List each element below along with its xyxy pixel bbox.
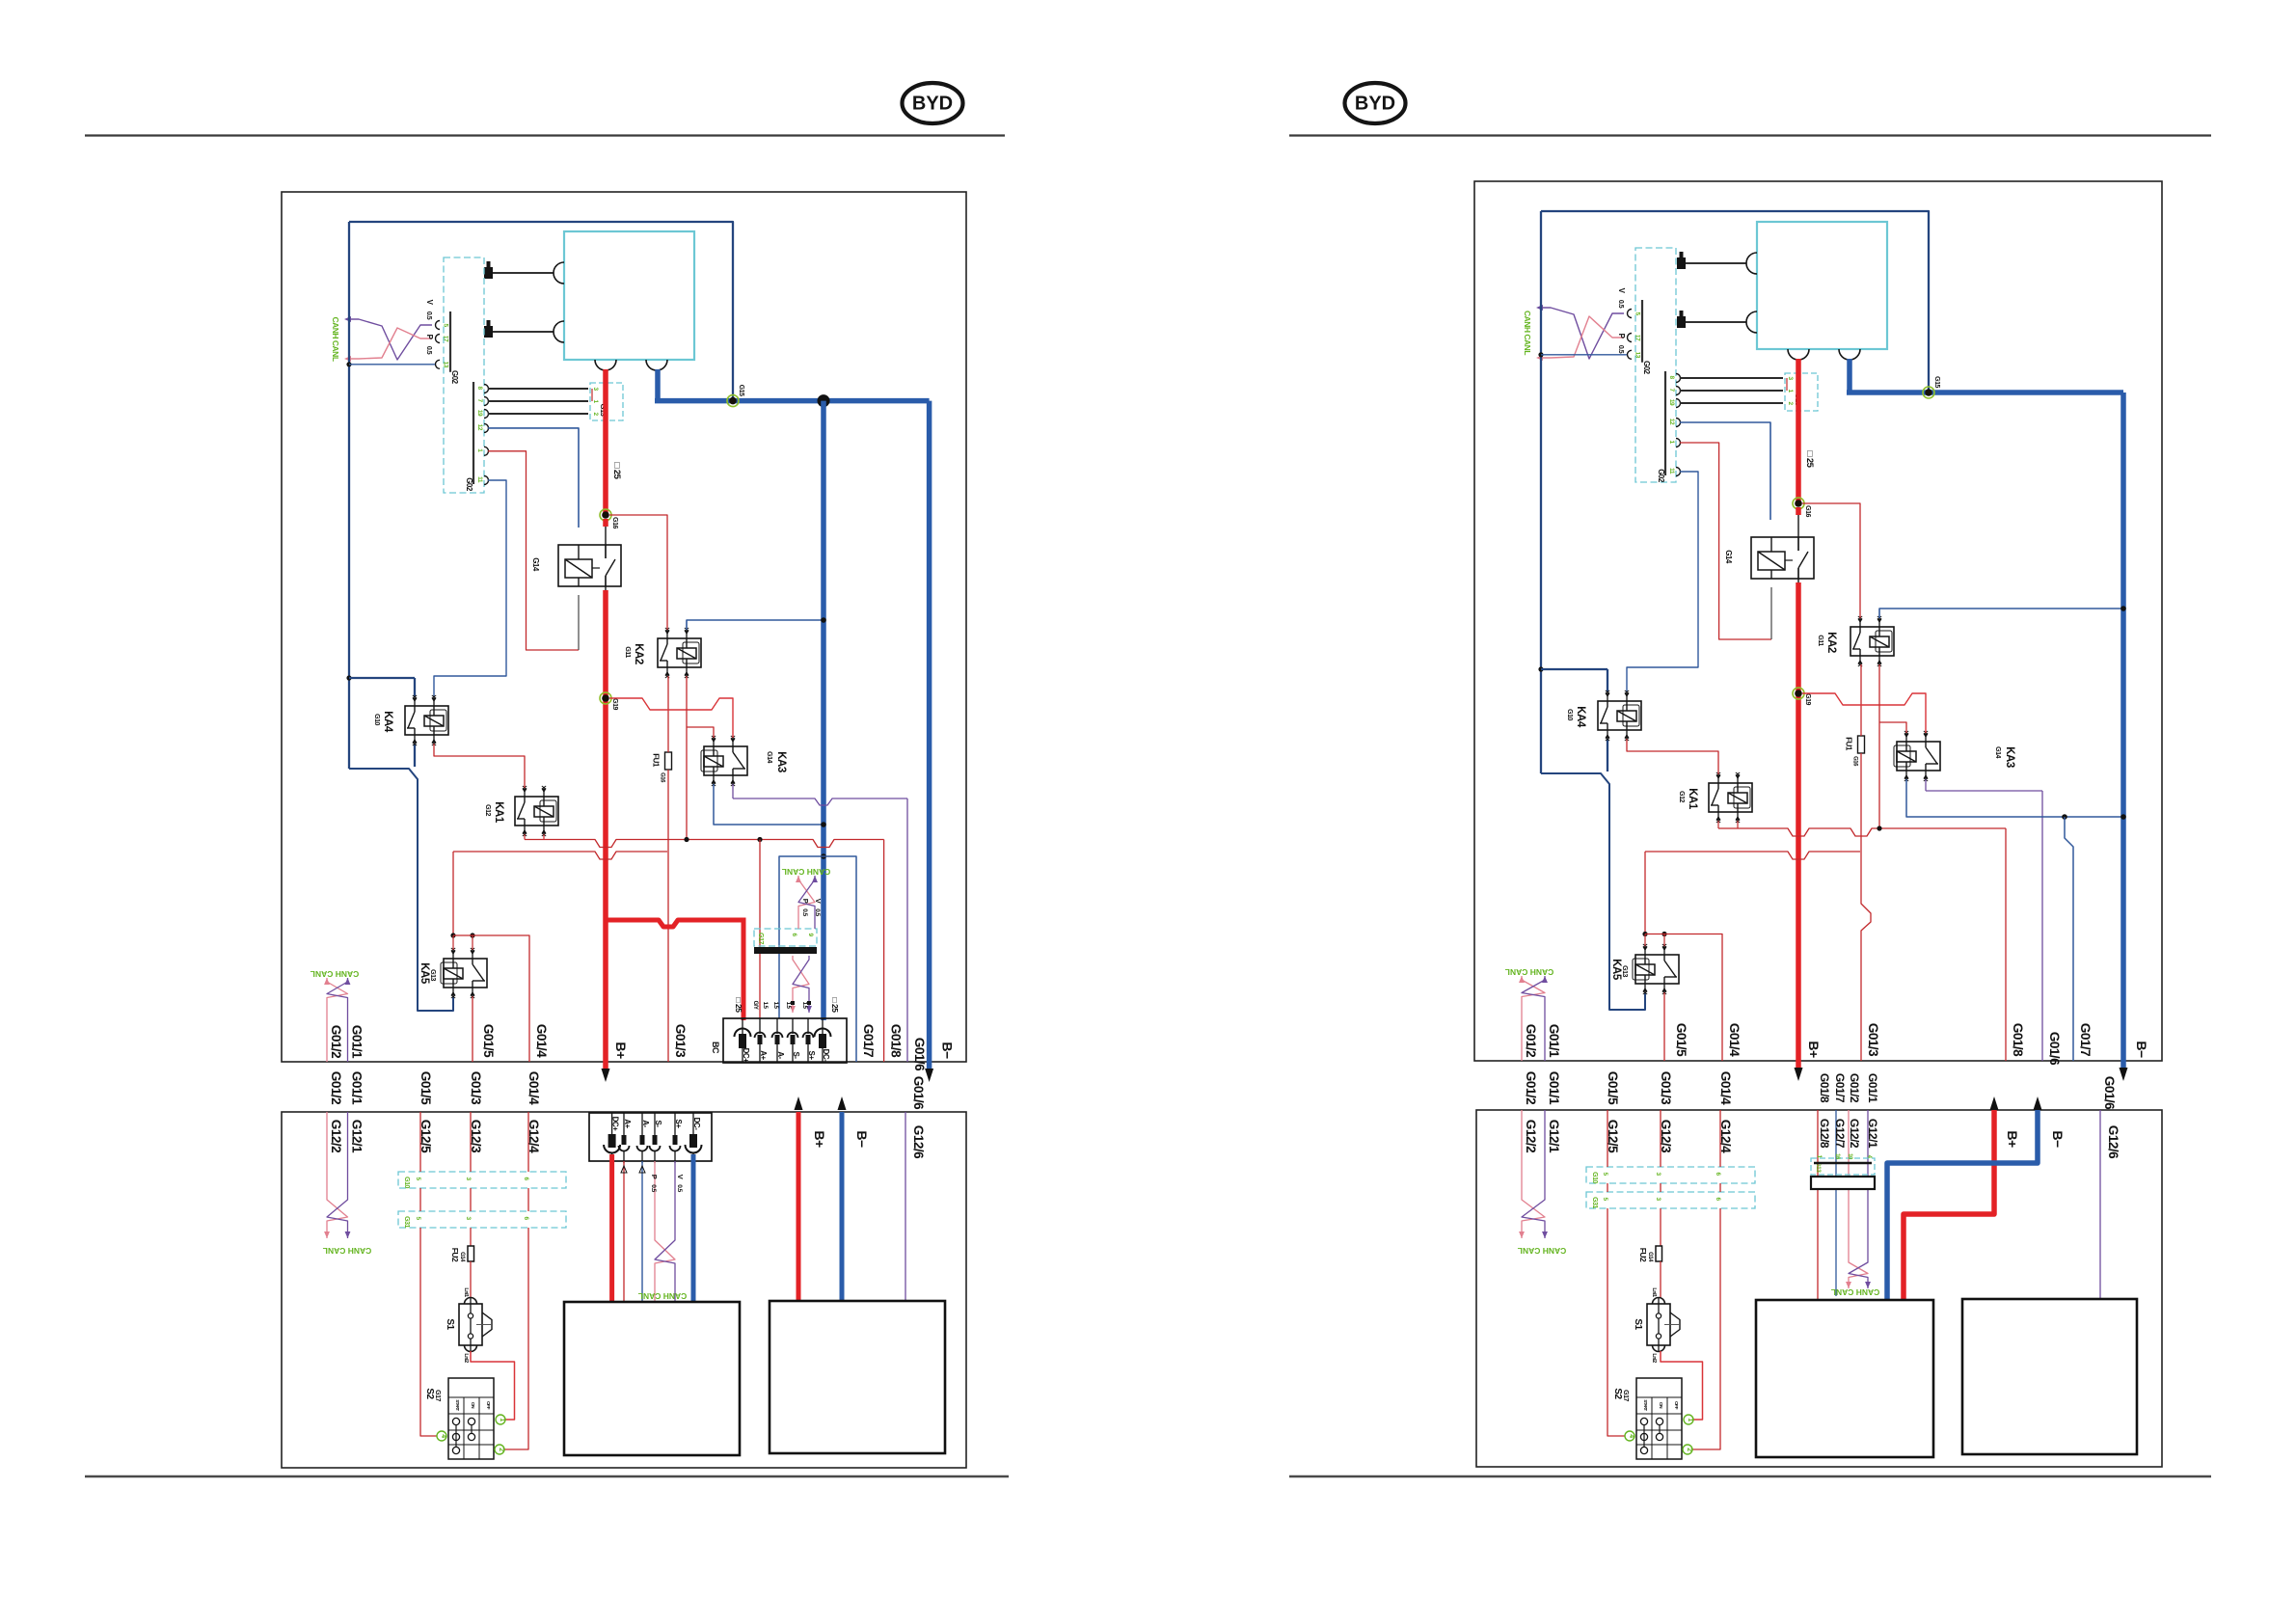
svg-text:1.5: 1.5: [801, 1002, 807, 1010]
lower block pin S- (L): [650, 1113, 663, 1163]
svg-text:0.5: 0.5: [814, 908, 821, 916]
svg-text:G01/8: G01/8: [889, 1024, 904, 1058]
wire G14 coil return (L): [578, 595, 580, 650]
svg-text:G12/1: G12/1: [350, 1120, 365, 1153]
label CANH CANL top (R): [1523, 311, 1532, 355]
controller B- outlet arc (L): [646, 360, 667, 370]
wire B+ lower (L): [797, 1112, 801, 1301]
B- arrow (L): [925, 1069, 933, 1082]
CAN pair to border (L): [324, 978, 350, 1010]
controller module box (L): [564, 231, 694, 360]
node G16 (R): [1793, 498, 1811, 517]
svg-text:KA3: KA3: [775, 751, 787, 772]
label G12/1 (R): [1547, 1120, 1561, 1153]
svg-text:DC+: DC+: [611, 1117, 620, 1132]
BC pin S+ (L): [803, 1018, 817, 1063]
label CANH CANL lower (R): [1505, 967, 1554, 977]
label G01/2 inbox (R): [1524, 1024, 1538, 1057]
gap label G01/2 mid (R): [1848, 1073, 1861, 1103]
S2 pin 4 (R): [1625, 1431, 1634, 1441]
svg-text:19: 19: [1668, 399, 1675, 406]
svg-text:G02: G02: [1642, 361, 1651, 375]
svg-text:CANH CANL: CANH CANL: [1523, 311, 1532, 355]
junction bus/KA4 (L): [346, 675, 351, 680]
wire KA4 pin drop (L): [414, 744, 416, 767]
wire B+ into relay G14 (R): [1796, 507, 1801, 551]
gap label G01/5 (L): [419, 1071, 433, 1105]
wire KA5 junction to G01/4 (L): [453, 935, 529, 1062]
svg-text:OFF: OFF: [1673, 1401, 1679, 1410]
CAN bus stub V wire (L): [344, 316, 432, 360]
wire G02 pin 8 to G13 (R): [1680, 377, 1783, 379]
svg-text:1: 1: [1687, 1418, 1693, 1421]
svg-text:G01/6: G01/6: [2102, 1076, 2117, 1110]
wire B- lower (L): [840, 1112, 845, 1301]
svg-text:B+: B+: [1806, 1041, 1822, 1058]
connector G02 bar2 (R): [1665, 371, 1681, 476]
wire G01/7 navy (L): [824, 856, 856, 1062]
svg-text:G17: G17: [1622, 1390, 1629, 1401]
svg-text:G01/3: G01/3: [1866, 1023, 1880, 1057]
connector block lower (L): [589, 1113, 712, 1161]
label G01/8 (R): [2011, 1023, 2025, 1057]
label KA5 G13 (L): [419, 962, 436, 985]
switch S1 (R): [1633, 1261, 1680, 1363]
CAN pair G17 to BC (L): [790, 956, 812, 1013]
connector G02 bar1 (R): [1628, 300, 1643, 363]
wire S1 to S2 (L): [471, 1351, 515, 1420]
svg-text:G01/7: G01/7: [861, 1024, 876, 1057]
wire G12/4 (R): [1692, 1110, 1720, 1449]
svg-text:G17: G17: [757, 933, 764, 944]
svg-text:V: V: [676, 1175, 685, 1179]
label KA1 G12 (L): [484, 801, 504, 824]
BC pin DC- (L): [815, 1018, 831, 1063]
svg-text:G01/2: G01/2: [1524, 1024, 1538, 1057]
svg-text:CANH CANL: CANH CANL: [638, 1291, 688, 1301]
label BC (L): [711, 1042, 720, 1054]
wire G01/1 purple (R): [1544, 1010, 1546, 1061]
label G01/1 inbox (R): [1547, 1024, 1561, 1058]
machine box left (L): [564, 1302, 740, 1455]
relay KA1 (R): [1709, 772, 1752, 823]
gap label G01/3 (R): [1659, 1071, 1673, 1105]
label KA4 G10 (R): [1566, 706, 1586, 728]
svg-text:B−: B−: [2050, 1130, 2066, 1148]
label G12/7 mid (R): [1833, 1119, 1847, 1149]
wire G16 to KA2 (R): [1802, 503, 1860, 618]
label G02 upper (L): [450, 370, 459, 385]
gap label G01/4 (R): [1718, 1071, 1733, 1105]
junction KA3 bus (L): [821, 822, 826, 827]
svg-text:B−: B−: [940, 1042, 956, 1059]
wire G01/7 navy (R): [2065, 817, 2073, 1061]
svg-text:G12: G12: [1678, 791, 1685, 802]
label G02 upper (R): [1642, 361, 1651, 375]
label S2 G17 (L): [424, 1388, 441, 1401]
wire G02 pin11 (R): [1627, 472, 1698, 692]
gap label G01/5 (R): [1606, 1071, 1620, 1105]
wire DC- to motor (L): [691, 1154, 696, 1302]
svg-text:□ 25: □ 25: [1804, 451, 1815, 469]
label G12/2 mid (R): [1848, 1119, 1861, 1149]
gap label G01/8 mid (R): [1818, 1073, 1831, 1103]
connector G10 strip (R): [1586, 1167, 1755, 1183]
wire B- thick blue vertical (R): [2120, 392, 2126, 1069]
svg-text:KA3: KA3: [2004, 746, 2015, 768]
header rule (L): [85, 134, 1005, 136]
svg-text:1: 1: [499, 1418, 505, 1421]
wire A- to motor (L): [639, 1161, 645, 1302]
label KA2 G11 (R): [1817, 632, 1837, 653]
wire G12/5 (L): [420, 1112, 437, 1436]
svg-text:G12/6: G12/6: [911, 1125, 926, 1159]
machine box left (R): [1756, 1300, 1933, 1457]
svg-text:DC+: DC+: [742, 1048, 750, 1064]
label 0.5 V (R): [1617, 288, 1626, 309]
CAN pair to border (R): [1519, 976, 1548, 1010]
svg-text:G01/6: G01/6: [2047, 1032, 2062, 1066]
svg-text:2: 2: [1686, 1448, 1692, 1451]
svg-text:START: START: [1643, 1399, 1648, 1411]
B+ arrow lower (L): [795, 1096, 803, 1110]
wire KA3 to G01/6 purple (R): [1926, 779, 2042, 1061]
svg-text:G01/4: G01/4: [1727, 1023, 1742, 1057]
node G15 (L): [727, 385, 744, 407]
svg-text:11: 11: [1668, 468, 1675, 474]
label 0.5 P (R): [1617, 334, 1626, 354]
B- arrow lower (R): [2034, 1096, 2042, 1110]
label B- lower (R): [2050, 1130, 2066, 1148]
label 0.5 P above G17 (L): [801, 899, 810, 917]
wire A+ to motor (L): [621, 1161, 627, 1302]
svg-text:11: 11: [476, 476, 483, 483]
gap label G01/4 (L): [527, 1071, 541, 1105]
label B- bottom (R): [2134, 1041, 2149, 1058]
label 0.5 P (L): [425, 335, 434, 355]
svg-text:G01/7: G01/7: [2078, 1023, 2093, 1056]
wire G01/3 (R): [1861, 753, 1871, 1061]
B+ arrow (L): [602, 1069, 610, 1082]
relay KA4 (R): [1598, 690, 1641, 741]
label CANH CANL motor (L): [638, 1291, 688, 1301]
wire G19 to KA3 (R): [1802, 693, 1926, 733]
label KA4 G10 (L): [373, 711, 393, 733]
svg-text:G01/4: G01/4: [1718, 1071, 1733, 1105]
svg-text:Lnl2: Lnl2: [463, 1353, 469, 1363]
svg-text:KA2: KA2: [1825, 632, 1837, 653]
svg-text:G14: G14: [1724, 550, 1733, 564]
svg-text:S1: S1: [445, 1318, 455, 1330]
BC pin DC+ (L): [735, 1018, 751, 1063]
wire KA2 lower right (R): [1878, 664, 1880, 828]
wire B- thick blue horizontal (L): [655, 398, 930, 404]
junction KA2/B- bus (L): [821, 617, 826, 623]
junction KA5 feed a (R): [1642, 932, 1647, 936]
wire KA3 to bus (L): [714, 784, 824, 825]
svg-text:FU2: FU2: [450, 1248, 460, 1262]
svg-text:G14: G14: [531, 557, 540, 572]
label B+ bottom (R): [1806, 1041, 1822, 1058]
label CANH CANL lower box (R): [1518, 1246, 1567, 1256]
label KA1 G12 (R): [1678, 788, 1698, 810]
svg-text:KA2: KA2: [633, 643, 644, 664]
svg-text:G12/5: G12/5: [1606, 1120, 1620, 1153]
svg-text:KA4: KA4: [1575, 706, 1586, 728]
controller left connector 2 (L): [484, 320, 564, 342]
node G19 (L): [600, 692, 618, 710]
label G01/1 inbox (L): [350, 1025, 365, 1059]
pin mark S+ (L): [807, 1001, 811, 1005]
svg-text:1.5: 1.5: [762, 1002, 768, 1010]
svg-text:G12/8: G12/8: [1818, 1119, 1831, 1149]
pin mark S- (L): [791, 1001, 795, 1005]
svg-text:G15: G15: [1933, 376, 1940, 388]
svg-text:B+: B+: [613, 1042, 629, 1059]
gap label G01/1 (R): [1547, 1071, 1561, 1105]
svg-text:BYD: BYD: [1355, 94, 1395, 115]
wire bus to KA4 (L): [349, 678, 415, 697]
junction KA5 feed b (L): [470, 933, 474, 937]
label 0.5 V (L): [425, 300, 434, 320]
wire DC- thick blue vertical (L): [821, 401, 826, 1020]
label G12/3 (L): [469, 1120, 483, 1153]
label G12/2 (R): [1524, 1120, 1538, 1152]
label 0.5 V motor (L): [676, 1175, 685, 1193]
svg-text:G16: G16: [660, 772, 665, 783]
label 25 DC- (L): [830, 998, 840, 1014]
wire KA2 to KA3 link (R): [1879, 722, 1906, 733]
wire G12/8 red (R): [1817, 1110, 1819, 1300]
wire B+ thick red upper (L): [603, 369, 608, 515]
svg-text:CANH CANL: CANH CANL: [311, 969, 360, 979]
svg-text:G11: G11: [1817, 635, 1823, 646]
svg-text:G16: G16: [1804, 505, 1811, 517]
svg-text:G11: G11: [624, 646, 631, 658]
svg-text:B−: B−: [854, 1130, 870, 1148]
svg-text:G12/2: G12/2: [1848, 1119, 1861, 1149]
svg-text:CANH CANL: CANH CANL: [1831, 1287, 1880, 1297]
svg-text:G10: G10: [1566, 709, 1573, 720]
label G14 (R): [1724, 550, 1733, 564]
label G12/4 (L): [527, 1120, 541, 1153]
wire G12/2 pink (L): [326, 1112, 328, 1196]
svg-text:G14: G14: [1994, 746, 2001, 758]
controller B- outlet arc (R): [1839, 349, 1860, 360]
wire G02 pin 7 to G13 (R): [1680, 390, 1783, 392]
connector G13 lower strip (R): [1811, 1153, 1875, 1175]
wire S+ purple to motor (L): [674, 1161, 676, 1236]
label G12/6 (R): [2106, 1125, 2120, 1159]
node G19 (R): [1793, 688, 1811, 705]
svg-text:BC: BC: [711, 1042, 720, 1054]
svg-text:G12/7: G12/7: [1833, 1119, 1847, 1149]
fuse FU1 (L): [652, 752, 672, 783]
svg-text:S-: S-: [654, 1121, 662, 1128]
schematic frame upper (R): [1474, 181, 2162, 1061]
connector G02 bar2 (L): [473, 382, 489, 485]
wire KA1 out r6 (L): [525, 834, 884, 1062]
wire G02 pin1 (R): [1680, 443, 1771, 639]
wire G01/3 (L): [667, 770, 669, 1062]
wire B- lower (R): [1887, 1110, 2038, 1300]
svg-text:G12/4: G12/4: [527, 1120, 541, 1153]
wire G12/2 pink (R): [1521, 1110, 1523, 1196]
lower block pin DC+ (L): [604, 1113, 620, 1163]
node G16 (L): [600, 509, 618, 528]
connector G02 strip (L): [444, 257, 484, 493]
svg-text:12: 12: [476, 424, 483, 431]
svg-text:B+: B+: [812, 1130, 827, 1148]
svg-text:A-: A-: [641, 1120, 650, 1127]
CAN pair to motor (L): [655, 1236, 675, 1283]
svg-text:G01/2: G01/2: [329, 1025, 343, 1058]
svg-text:FU1: FU1: [652, 753, 661, 768]
label G02 lower (R): [1657, 469, 1665, 483]
svg-text:ON: ON: [470, 1402, 475, 1409]
svg-text:CANH CANL: CANH CANL: [782, 867, 831, 877]
svg-text:S-: S-: [792, 1052, 800, 1060]
label 25 DC+ (L): [734, 998, 743, 1014]
wire KA5 junction to G01/4 (R): [1645, 934, 1722, 1062]
wire KA4 jog riser (L): [349, 769, 453, 1011]
svg-text:A-: A-: [776, 1051, 785, 1059]
fuse FU2 (L): [450, 1246, 474, 1262]
wire KA4 pin drop (R): [1607, 739, 1608, 771]
S2 pin 2 (L): [495, 1445, 504, 1454]
svg-text:G14: G14: [1647, 1252, 1653, 1262]
gap label G01/2 (L): [329, 1071, 343, 1104]
lower block pin DC- (L): [686, 1113, 702, 1163]
svg-text:DC-: DC-: [822, 1049, 830, 1063]
junction KA5 feed a (L): [450, 933, 455, 937]
gap label G01/2 (R): [1524, 1071, 1538, 1104]
wire bus to G02 pin13 (L): [349, 364, 435, 365]
junction KA3 bus (R): [2120, 814, 2126, 820]
wire G02 pin12 to relay coil (L): [488, 428, 579, 528]
svg-text:A+: A+: [759, 1050, 768, 1060]
svg-text:G13: G13: [429, 969, 436, 981]
connector G02 strip (R): [1635, 248, 1676, 482]
svg-text:KA1: KA1: [493, 801, 504, 824]
wire B- thick blue horizontal (R): [1847, 390, 2123, 395]
connector G13 (R): [1785, 373, 1818, 411]
relay KA2 (R): [1850, 616, 1894, 666]
CAN bus stub P wire (L): [344, 328, 432, 362]
label CANH CANL top (L): [331, 316, 340, 361]
wire G12/3 upper (R): [1660, 1110, 1661, 1246]
svg-text:G31: G31: [403, 1216, 410, 1228]
CAN bus stub P wire (R): [1536, 316, 1624, 361]
svg-text:P: P: [650, 1175, 659, 1179]
svg-text:V: V: [814, 899, 823, 904]
schematic frame upper (L): [282, 192, 966, 1062]
label G12/2 (L): [329, 1120, 343, 1152]
relay G14 (R): [1751, 537, 1814, 579]
switch S1 (L): [445, 1261, 492, 1363]
relay KA3 (R): [1894, 731, 1940, 781]
svg-text:G14: G14: [459, 1252, 465, 1262]
junction thick blue DC- (L): [818, 394, 830, 407]
svg-text:19: 19: [476, 410, 483, 417]
wire navy left bus (L): [348, 222, 350, 769]
label G01/8 (L): [889, 1024, 904, 1058]
svg-text:G10: G10: [1591, 1172, 1598, 1183]
svg-text:G01/2: G01/2: [1524, 1071, 1538, 1104]
svg-text:□ 25: □ 25: [611, 463, 622, 480]
gap label G01/1 mid (R): [1866, 1073, 1879, 1103]
label G01/3 (R): [1866, 1023, 1880, 1057]
label B+ lower (R): [2005, 1130, 2020, 1148]
controller B+ outlet arc (L): [595, 360, 616, 370]
connector G10 strip (L): [398, 1172, 566, 1188]
BC pin A- (L): [772, 1018, 786, 1063]
svg-text:ON: ON: [1658, 1402, 1663, 1409]
svg-text:P: P: [801, 899, 810, 904]
svg-text:G12/1: G12/1: [1547, 1120, 1561, 1153]
svg-text:KA4: KA4: [382, 711, 393, 733]
svg-text:17: 17: [443, 336, 449, 342]
svg-text:G12/1: G12/1: [1866, 1119, 1879, 1149]
wire DC+ to motor (L): [609, 1154, 614, 1302]
machine box right (L): [770, 1301, 945, 1453]
svg-text:G19: G19: [611, 698, 618, 710]
svg-text:S+: S+: [674, 1119, 683, 1128]
wire G02 pin 8 to G13 (L): [488, 388, 588, 390]
connector G13 pins (L): [592, 387, 608, 416]
svg-text:G31: G31: [1591, 1197, 1598, 1208]
wire bus to KA4 (R): [1541, 669, 1607, 692]
wire G01/1 purple (L): [347, 1010, 349, 1062]
wire G19 to KA3 (L): [609, 698, 733, 738]
svg-text:1.5: 1.5: [772, 1002, 778, 1010]
wire B+ thick red lower (L): [605, 576, 607, 1070]
controller left connector 2 (R): [1677, 311, 1757, 333]
label G12/1 mid (R): [1866, 1119, 1879, 1149]
node G15 (R): [1923, 376, 1940, 398]
controller left connector 1 (R): [1677, 252, 1757, 274]
svg-text:S2: S2: [424, 1388, 435, 1399]
label G01/2 inbox (L): [329, 1025, 343, 1058]
svg-text:START: START: [455, 1399, 460, 1411]
label G01/4 (R): [1727, 1023, 1742, 1057]
svg-text:OFF: OFF: [485, 1401, 491, 1410]
controller module box (R): [1757, 222, 1887, 349]
wire G12/5 (R): [1607, 1110, 1625, 1436]
footer rule (R): [1289, 1475, 2211, 1477]
svg-text:CANH CANL: CANH CANL: [323, 1246, 372, 1256]
header rule (R): [1289, 134, 2211, 136]
wire A+ red (L): [759, 840, 761, 1019]
svg-text:13: 13: [1634, 352, 1641, 359]
svg-text:G01/5: G01/5: [419, 1071, 433, 1105]
svg-text:KA5: KA5: [1610, 959, 1622, 981]
svg-text:CANH CANL: CANH CANL: [1505, 967, 1554, 977]
wire G12/6 purple (L): [905, 1112, 906, 1301]
svg-text:0.5: 0.5: [650, 1184, 657, 1192]
connector G17 bar (L): [754, 947, 817, 954]
lower block pin S+ (L): [670, 1113, 684, 1163]
label G12/1 (L): [350, 1120, 365, 1153]
svg-text:KA5: KA5: [419, 962, 430, 985]
svg-text:G01/5: G01/5: [1674, 1023, 1688, 1057]
switch S2 table (L): [448, 1378, 494, 1459]
svg-text:B−: B−: [2134, 1041, 2149, 1058]
wire G02 pin1 (L): [488, 451, 579, 650]
svg-text:G19: G19: [1804, 693, 1811, 705]
junction r6 KA2 (L): [684, 837, 689, 842]
wire B+ lower (R): [1904, 1110, 1994, 1300]
